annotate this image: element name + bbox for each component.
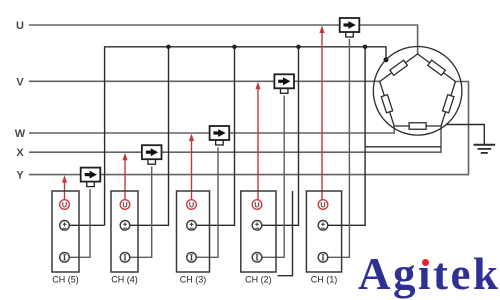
wire common bus	[105, 47, 386, 226]
resistor winding 3 (left)	[381, 95, 392, 113]
wire ground feed from motor frame	[446, 125, 484, 145]
wire phase X line	[29, 126, 441, 152]
wire phase V line	[29, 80, 380, 82]
voltage probe CH4 to X	[122, 153, 127, 200]
resistor winding 1 (top-left)	[390, 60, 408, 75]
channel box CH4	[111, 191, 138, 285]
wire CT-X output to CH4 I	[130, 167, 152, 258]
svg-text:CH (5): CH (5)	[52, 275, 79, 285]
wire phase Y line	[29, 82, 469, 175]
wire CH3 plus-minus to bus	[196, 47, 234, 226]
svg-text:W: W	[15, 128, 26, 140]
channel box CH2	[241, 191, 276, 285]
voltage probe CH5 to Y	[62, 175, 67, 200]
svg-text:CH (4): CH (4)	[111, 275, 138, 285]
current sensor CT-X	[142, 145, 162, 164]
wire CH1 plus-minus branch to phase X vertex	[365, 146, 441, 148]
wire CH4 plus-minus to bus	[130, 47, 169, 226]
wire CT-Y output to CH5 I	[69, 189, 90, 257]
wire stub below CH2	[278, 191, 293, 276]
node motor common terminal	[384, 57, 389, 62]
svg-text:CH (1): CH (1)	[311, 275, 338, 285]
svg-text:V: V	[16, 76, 24, 88]
wire CH5 plus-minus to bus	[69, 224, 104, 226]
channel box CH1	[306, 191, 341, 285]
voltage probe CH1 to U	[319, 26, 324, 200]
wire CH1 plus-minus to bus	[328, 47, 365, 226]
svg-text:U: U	[16, 20, 24, 32]
node bus junction CH1	[363, 45, 367, 49]
node bus junction CH4	[166, 45, 170, 49]
Agitek logo	[358, 252, 500, 297]
voltage probe CH3 to W	[189, 134, 194, 200]
svg-text:Y: Y	[16, 170, 24, 182]
current sensor CT-V	[274, 74, 294, 93]
current sensor CT-U	[340, 18, 360, 37]
resistor winding 4 (right)	[443, 95, 454, 113]
wire CH2 plus-minus to bus	[262, 47, 299, 226]
svg-text:CH (3): CH (3)	[180, 275, 207, 285]
node bus junction CH2	[296, 45, 300, 49]
current sensor CT-Y	[81, 168, 101, 187]
svg-text:X: X	[16, 147, 24, 159]
wire phase U line	[29, 25, 418, 54]
ground	[474, 145, 496, 153]
wire CT-U output to CH1 I	[328, 39, 350, 257]
svg-text:CH (2): CH (2)	[245, 275, 272, 285]
wire phase W line	[29, 126, 394, 133]
node bus junction CH3	[232, 45, 236, 49]
channel box CH5	[52, 191, 79, 285]
wire CT-V output to CH2 I	[262, 96, 284, 258]
motor M (5-phase pentagon winding)	[373, 47, 462, 136]
resistor winding 2 (top-right)	[428, 60, 446, 75]
voltage probe CH2 to V	[255, 82, 260, 200]
wire CT-W output to CH3 I	[196, 147, 218, 257]
current sensor CT-W	[210, 126, 230, 145]
resistor winding 5 (bottom)	[409, 123, 426, 130]
channel box CH3	[177, 191, 210, 285]
